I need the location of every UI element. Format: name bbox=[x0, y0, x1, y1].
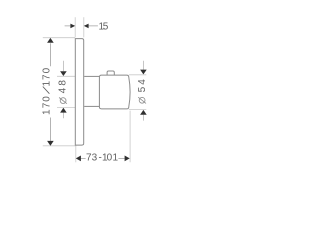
dimension d54 diameter symbol bbox=[138, 97, 146, 103]
button on handle bbox=[107, 71, 114, 75]
wall plate side view bbox=[75, 39, 83, 146]
extension line d54 bottom bbox=[129, 109, 147, 111]
sleeve top edge bbox=[84, 75, 99, 77]
sleeve bottom edge bbox=[84, 105, 99, 107]
dimension d54 text 54 rotated bbox=[137, 79, 148, 93]
dimension d54 tails bbox=[142, 61, 144, 121]
svg-text:54: 54 bbox=[137, 79, 148, 93]
extension line 170 bottom bbox=[43, 145, 77, 147]
dimension 15 arrow right bbox=[84, 24, 89, 29]
dimension 170/170 slash bbox=[43, 87, 50, 94]
extension line d54 top bbox=[129, 74, 147, 76]
dimension d48 text 48 rotated bbox=[57, 80, 68, 94]
dimension d48 arrow down bbox=[60, 71, 67, 76]
dimension d54 arrow up bbox=[140, 110, 147, 115]
svg-text:48: 48 bbox=[57, 80, 68, 94]
extension line 15 left bbox=[74, 17, 76, 37]
handle side view bbox=[99, 75, 130, 109]
dimension 170 arrow up bbox=[47, 38, 54, 43]
dimension 73-101 arrow right bbox=[125, 156, 130, 162]
extension line d48 bottom bbox=[57, 107, 84, 109]
dimension 170/170 text rotated bbox=[42, 67, 53, 115]
extension line 73-101 right bbox=[129, 111, 131, 163]
svg-text:170: 170 bbox=[42, 67, 53, 86]
dimension d48 tails bbox=[62, 61, 64, 118]
dimension 73-101 stubs bbox=[81, 157, 125, 159]
dimension d54 arrow down bbox=[140, 70, 147, 75]
dimension d48 diameter symbol bbox=[59, 98, 67, 104]
svg-text:15: 15 bbox=[98, 22, 108, 33]
extension line 15 right bbox=[83, 17, 85, 37]
dimension 73-101 arrow left bbox=[76, 156, 81, 162]
extension line 170 top bbox=[43, 37, 75, 39]
extension line 73-101 left bbox=[75, 145, 77, 162]
svg-text:170: 170 bbox=[42, 96, 53, 115]
dimension d48 arrow up bbox=[60, 108, 67, 113]
dimension 15 line bbox=[65, 25, 98, 27]
dimension 15 arrow left bbox=[70, 24, 75, 29]
dimension 170 arrow down bbox=[47, 141, 54, 146]
dimension 170/170 line bbox=[49, 43, 51, 141]
svg-text:73-101: 73-101 bbox=[86, 152, 119, 163]
extension line d48 top bbox=[57, 75, 84, 77]
